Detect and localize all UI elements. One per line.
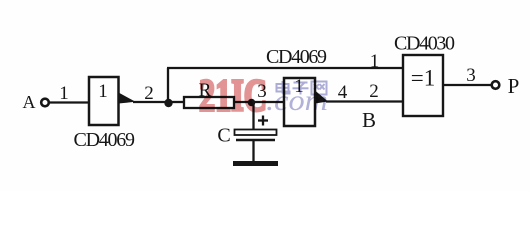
svg-text:2: 2: [144, 83, 154, 104]
svg-text:1: 1: [370, 51, 380, 72]
svg-text:1: 1: [98, 81, 108, 102]
svg-text:P: P: [508, 74, 520, 98]
svg-text:C: C: [217, 125, 230, 147]
svg-text:=1: =1: [411, 66, 435, 91]
svg-text:B: B: [362, 108, 376, 132]
svg-text:2: 2: [369, 81, 379, 102]
svg-text:CD4030: CD4030: [394, 33, 455, 55]
svg-text:3: 3: [466, 65, 476, 86]
svg-text:1: 1: [59, 83, 69, 104]
svg-text:4: 4: [338, 82, 348, 103]
svg-text:21IC: 21IC: [199, 71, 267, 121]
svg-text:CD4069: CD4069: [266, 46, 327, 68]
svg-text:CD4069: CD4069: [74, 129, 136, 151]
svg-text:A: A: [23, 92, 36, 112]
svg-text:.com: .com: [266, 84, 328, 117]
